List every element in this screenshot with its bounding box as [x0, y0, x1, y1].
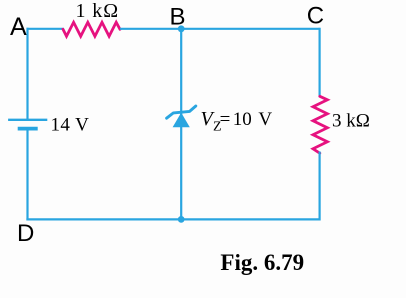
wire R1 to node B — [120, 28, 181, 30]
svg-text:A: A — [10, 13, 27, 41]
wire A to R1 (top-left horizontal) — [27, 28, 65, 30]
svg-text:14 V: 14 V — [51, 114, 90, 135]
zener diode VZ triangle (anode, pointing up) — [173, 113, 190, 128]
wire middle branch B down through zener to bottom — [180, 29, 182, 220]
wire A down to battery positive plate — [26, 28, 28, 120]
svg-text:VZ=10V: VZ=10V — [201, 108, 273, 134]
zener diode VZ cathode bar with bent ends — [167, 106, 196, 118]
svg-text:1 kΩ: 1 kΩ — [76, 0, 119, 22]
wire battery negative down to node D — [26, 129, 28, 221]
svg-text:B: B — [170, 4, 186, 31]
svg-text:3 kΩ: 3 kΩ — [332, 111, 370, 132]
junction dot bottom of middle branch — [178, 216, 185, 223]
svg-text:C: C — [307, 3, 324, 30]
wire R2 down to bottom-right corner — [319, 152, 321, 221]
resistor R2 3 kOhm vertical zigzag — [313, 96, 327, 153]
junction dot node B — [178, 25, 185, 32]
battery 14 V negative plate (short thick) — [18, 127, 38, 131]
wire node B to node C (top-right horizontal) — [181, 28, 319, 30]
wire node C down to R2 — [319, 28, 321, 97]
battery 14 V positive plate (long) — [8, 119, 47, 121]
svg-text:D: D — [17, 220, 34, 247]
svg-text:Fig. 6.79: Fig. 6.79 — [220, 250, 304, 275]
wire node D to bottom-right corner (bottom horizontal) — [26, 218, 319, 220]
resistor R1 1 kOhm zigzag — [63, 22, 120, 36]
